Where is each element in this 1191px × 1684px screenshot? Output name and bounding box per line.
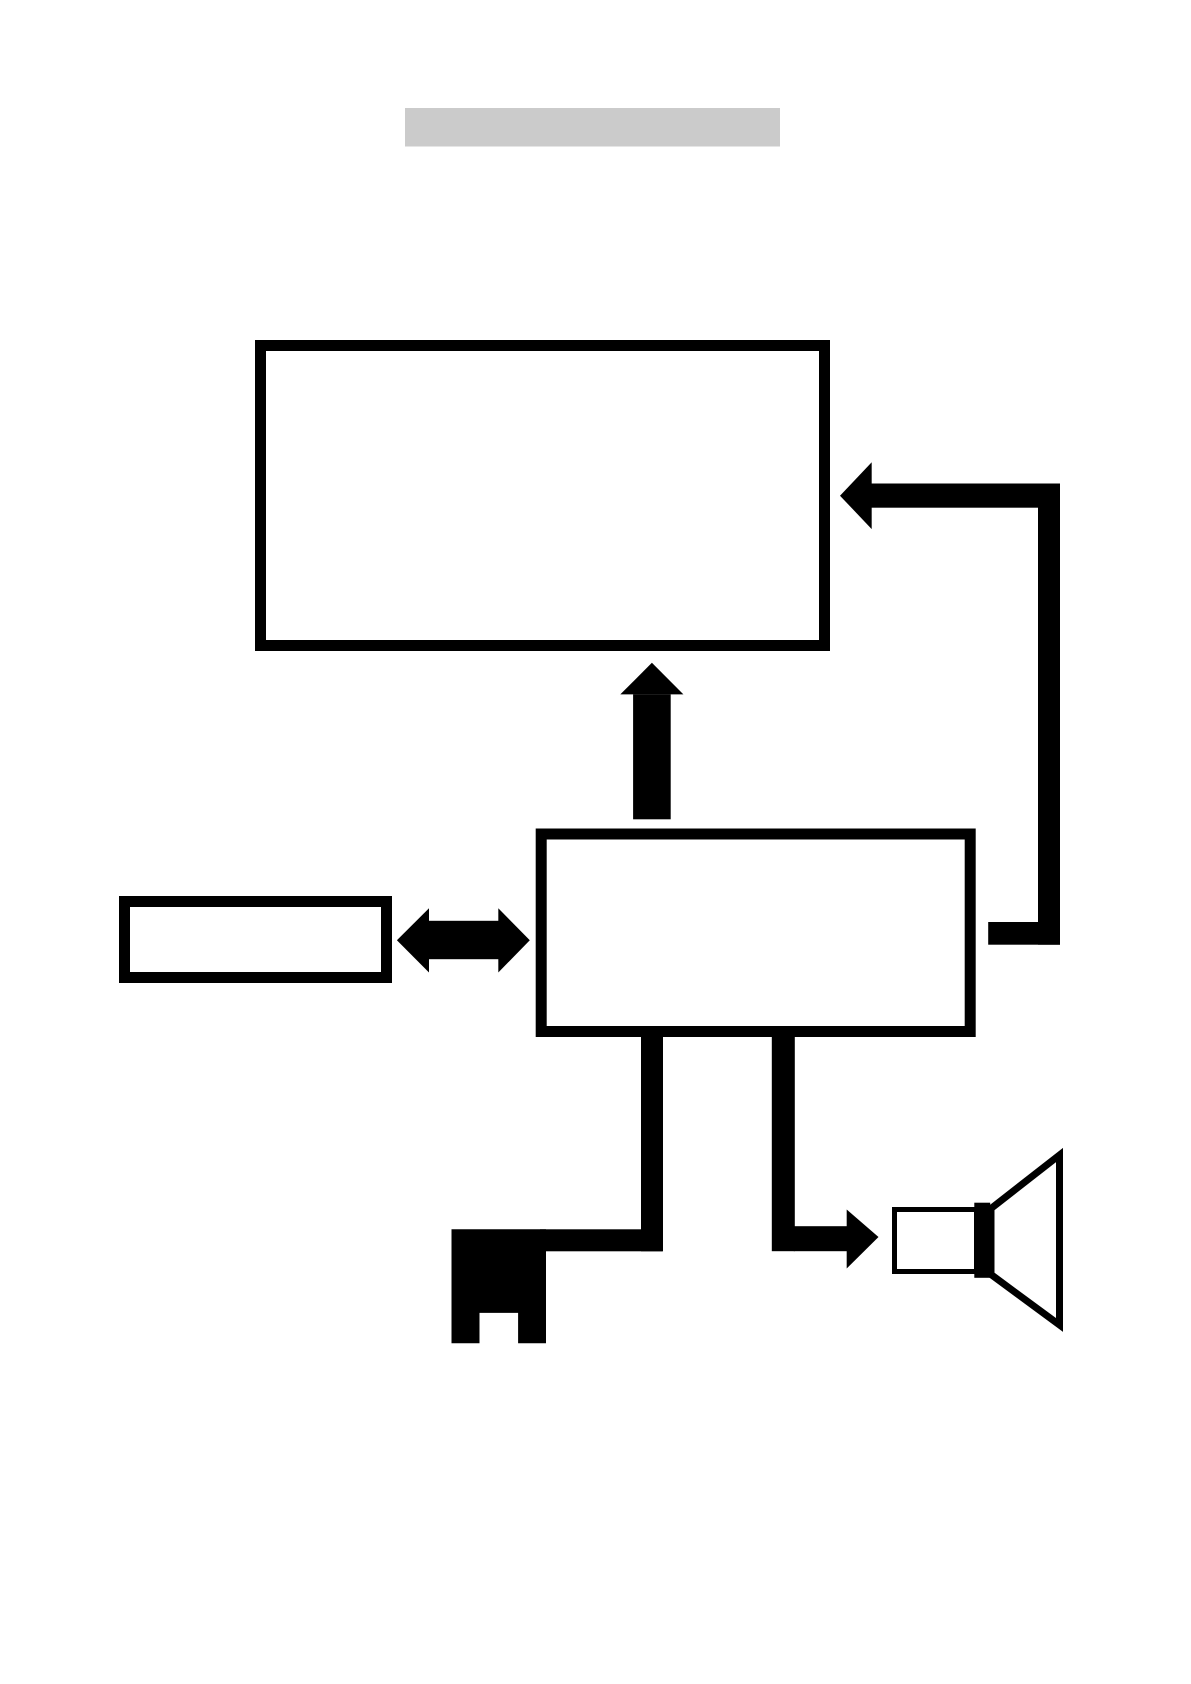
- wire: feedback shaft (horizontal, top right): [870, 484, 1060, 508]
- arrowhead up into block B1: [620, 663, 683, 695]
- plug icon (power connector): [452, 1229, 547, 1343]
- wire: feedback vertical segment: [1038, 484, 1060, 945]
- wire: left drop from B2 bottom: [641, 1037, 663, 1251]
- arrowhead into block B1: [840, 462, 872, 529]
- wire: horizontal run to plug: [540, 1229, 663, 1251]
- arrowhead left toward B3: [397, 908, 429, 972]
- speaker magnet bar: [974, 1203, 990, 1278]
- wire: right drop from B2 bottom: [772, 1037, 795, 1251]
- speaker horn: [991, 1155, 1060, 1325]
- arrowhead right toward B2: [498, 908, 530, 972]
- arrowhead toward speaker: [847, 1210, 879, 1269]
- block B2 (middle box): [541, 834, 970, 1032]
- speaker driver box: [895, 1210, 977, 1272]
- block B1 (top large box): [261, 346, 825, 646]
- wire: horizontal arm to speaker: [794, 1226, 847, 1251]
- block B3 (small left box): [125, 902, 387, 978]
- wire: up-arrow shaft (B2 to B1): [633, 694, 671, 819]
- wire: feedback bottom stub: [988, 922, 1060, 945]
- title placeholder bar: [405, 108, 780, 147]
- double arrow shaft (B3 to B2): [428, 921, 499, 959]
